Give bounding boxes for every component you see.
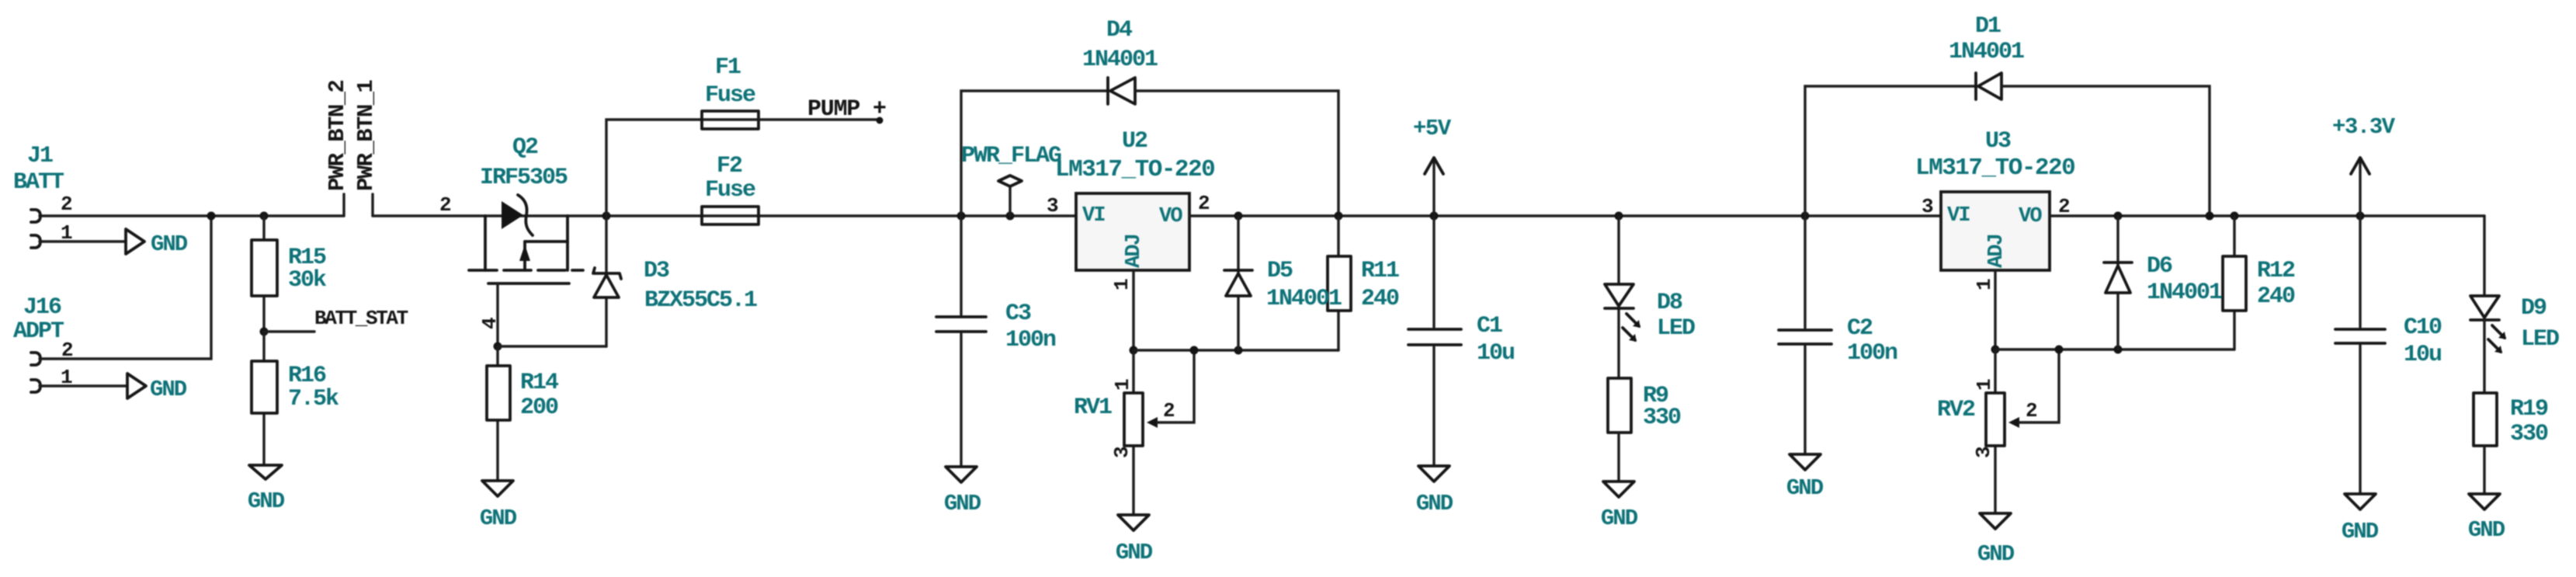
ground GND below RV2 bbox=[1977, 513, 2015, 567]
junction at C2/D1 riser bbox=[1801, 212, 1810, 221]
svg-text:Fuse: Fuse bbox=[705, 177, 755, 203]
svg-text:1N4001: 1N4001 bbox=[1082, 47, 1158, 73]
junction +3.3V / C10 bbox=[2356, 212, 2365, 221]
wire main bus left segment bbox=[40, 214, 344, 217]
op-amp U2 LM317_TO-220 bbox=[1047, 128, 1214, 290]
svg-text:J16: J16 bbox=[23, 294, 61, 321]
svg-text:D9: D9 bbox=[2521, 295, 2546, 322]
svg-text:D4: D4 bbox=[1106, 17, 1133, 43]
svg-text:7.5k: 7.5k bbox=[288, 386, 339, 412]
svg-text:GND: GND bbox=[944, 491, 981, 516]
power flag PWR_FLAG bbox=[961, 143, 1061, 221]
power +5V bbox=[1413, 116, 1452, 216]
junction at D3 top on main bus bbox=[602, 212, 611, 221]
junction at J16 riser bbox=[207, 212, 216, 221]
junction D5 top bbox=[1234, 212, 1243, 221]
svg-text:PWR_BTN_2: PWR_BTN_2 bbox=[325, 81, 350, 191]
svg-text:VI: VI bbox=[1082, 204, 1105, 228]
wire riser to D1 rail bbox=[1805, 86, 1976, 216]
svg-text:R12: R12 bbox=[2257, 258, 2295, 284]
power +3.3V bbox=[2332, 114, 2396, 216]
svg-text:J1: J1 bbox=[27, 143, 53, 169]
svg-text:LM317_TO-220: LM317_TO-220 bbox=[1915, 155, 2074, 182]
wire D1 rail to right riser bbox=[2001, 86, 2210, 216]
svg-text:F1: F1 bbox=[715, 54, 741, 81]
wire riser to D4 rail bbox=[961, 91, 1108, 216]
svg-text:GND: GND bbox=[2468, 517, 2505, 543]
svg-text:GND: GND bbox=[1116, 540, 1153, 565]
junction +5V / C1 bbox=[1430, 212, 1439, 221]
svg-text:D5: D5 bbox=[1267, 258, 1293, 284]
svg-text:BATT_STAT: BATT_STAT bbox=[314, 307, 408, 330]
svg-text:U2: U2 bbox=[1122, 128, 1147, 155]
svg-text:3: 3 bbox=[1110, 446, 1134, 458]
wire riser to F1 bbox=[606, 120, 702, 216]
wire ADJ line to R11 bbox=[1134, 349, 1338, 351]
op-amp U3 LM317_TO-220 bbox=[1915, 128, 2074, 290]
svg-text:2: 2 bbox=[2026, 399, 2038, 422]
svg-text:2: 2 bbox=[1163, 399, 1175, 422]
connector J1 labels bbox=[13, 143, 64, 196]
svg-text:10u: 10u bbox=[1477, 340, 1514, 367]
wire U3 VO to right bbox=[2050, 214, 2484, 217]
junction R12 top bbox=[2231, 212, 2239, 221]
svg-text:240: 240 bbox=[1361, 286, 1399, 312]
node PUMP + bbox=[807, 96, 886, 124]
svg-text:GND: GND bbox=[248, 488, 285, 514]
svg-text:RV1: RV1 bbox=[1074, 395, 1112, 421]
svg-text:LED: LED bbox=[2521, 326, 2559, 353]
svg-text:GND: GND bbox=[151, 231, 188, 257]
ground GND below C1 bbox=[1416, 466, 1453, 516]
node BATT_STAT bbox=[260, 307, 408, 336]
junction ADJ node bbox=[1130, 346, 1138, 355]
wire U2 ADJ pin bbox=[1132, 270, 1134, 350]
junction D6 top bbox=[2114, 212, 2123, 221]
diode D6 1N4001 bbox=[2104, 216, 2222, 349]
svg-text:GND: GND bbox=[480, 506, 517, 531]
svg-text:C10: C10 bbox=[2404, 315, 2442, 341]
svg-text:330: 330 bbox=[2510, 421, 2548, 447]
svg-text:F2: F2 bbox=[717, 153, 742, 179]
fuse F1 bbox=[702, 54, 759, 129]
junction at C3/D4 riser bbox=[957, 212, 966, 221]
svg-text:1: 1 bbox=[1973, 278, 1996, 290]
diode D5 1N4001 bbox=[1224, 216, 1342, 350]
diode D4 1N4001 bbox=[1082, 17, 1158, 104]
svg-text:R14: R14 bbox=[520, 370, 559, 396]
ground GND below R16 bbox=[248, 465, 285, 514]
svg-text:30k: 30k bbox=[288, 267, 327, 294]
svg-text:R19: R19 bbox=[2510, 396, 2548, 422]
net label PWR_BTN_2 bbox=[325, 81, 350, 191]
junction D6 bottom bbox=[2114, 346, 2123, 354]
fuse F2 bbox=[702, 153, 759, 224]
ground GND at J16 pin1 bbox=[127, 374, 187, 402]
svg-text:BZX55C5.1: BZX55C5.1 bbox=[644, 287, 757, 314]
connector J1 pin 1 bbox=[31, 221, 126, 248]
wire ADJ line to R12 bbox=[1995, 348, 2234, 350]
svg-text:ADJ: ADJ bbox=[1123, 235, 1146, 268]
ground GND below R14 bbox=[480, 481, 517, 531]
zener diode D3 BZX55C5.1 bbox=[593, 216, 757, 346]
svg-text:240: 240 bbox=[2257, 283, 2295, 310]
ground GND below R9 bbox=[1601, 481, 1638, 531]
LED D8 bbox=[1605, 216, 1695, 378]
svg-text:VO: VO bbox=[1159, 205, 1182, 228]
connector J16 labels bbox=[13, 294, 64, 345]
ground GND below C3 bbox=[944, 467, 981, 516]
svg-text:C3: C3 bbox=[1005, 301, 1031, 327]
svg-text:D8: D8 bbox=[1657, 290, 1682, 316]
svg-text:3: 3 bbox=[1922, 195, 1934, 218]
ground GND below R19 bbox=[2468, 494, 2505, 543]
svg-text:2: 2 bbox=[439, 193, 452, 217]
svg-text:C2: C2 bbox=[1847, 315, 1873, 342]
svg-text:GND: GND bbox=[1416, 491, 1453, 516]
svg-text:LM317_TO-220: LM317_TO-220 bbox=[1055, 156, 1214, 183]
svg-text:ADPT: ADPT bbox=[13, 318, 64, 345]
connector J1 pin 2 bbox=[31, 193, 73, 222]
svg-text:330: 330 bbox=[1643, 405, 1681, 431]
svg-text:IRF5305: IRF5305 bbox=[480, 165, 568, 191]
svg-text:C1: C1 bbox=[1477, 313, 1502, 339]
svg-text:VI: VI bbox=[1947, 204, 1970, 228]
svg-text:U3: U3 bbox=[1985, 128, 2011, 155]
ground GND below C2 bbox=[1786, 454, 1824, 501]
svg-text:D6: D6 bbox=[2147, 253, 2172, 280]
capacitor C3 bbox=[936, 216, 1056, 467]
svg-text:1: 1 bbox=[61, 221, 73, 245]
capacitor C1 bbox=[1408, 216, 1514, 466]
junction D8 branch bbox=[1615, 212, 1623, 221]
svg-text:PUMP +: PUMP + bbox=[807, 96, 886, 123]
svg-text:10u: 10u bbox=[2404, 342, 2441, 368]
resistor R11 bbox=[1328, 216, 1399, 350]
potentiometer RV1 bbox=[1074, 346, 1199, 516]
svg-text:+5V: +5V bbox=[1413, 116, 1452, 141]
svg-text:2: 2 bbox=[1198, 192, 1210, 215]
wire U2 VO to U3 bbox=[1189, 214, 1941, 217]
junction at gate/R14/D3 node bbox=[494, 342, 502, 351]
svg-text:RV2: RV2 bbox=[1937, 397, 1975, 423]
svg-text:R16: R16 bbox=[288, 363, 326, 389]
wire J16 pin2 to main bus bbox=[40, 216, 211, 359]
svg-text:GND: GND bbox=[150, 377, 187, 402]
wire U3 ADJ pin bbox=[1994, 270, 1996, 349]
svg-text:1: 1 bbox=[1111, 378, 1134, 391]
svg-text:1: 1 bbox=[61, 366, 73, 389]
wire D9 branch bbox=[2483, 216, 2485, 296]
svg-text:R11: R11 bbox=[1361, 258, 1399, 284]
svg-text:1: 1 bbox=[1973, 378, 1996, 391]
junction at R15 top bbox=[260, 212, 269, 221]
svg-text:PWR_FLAG: PWR_FLAG bbox=[961, 143, 1061, 169]
svg-text:LED: LED bbox=[1657, 315, 1695, 342]
capacitor C10 bbox=[2335, 216, 2442, 494]
potentiometer RV2 bbox=[1937, 346, 2064, 514]
LED D9 bbox=[2470, 295, 2559, 393]
ground GND below C10 bbox=[2342, 494, 2379, 544]
capacitor C2 bbox=[1779, 216, 1897, 454]
resistor R16 bbox=[252, 332, 339, 465]
svg-text:200: 200 bbox=[520, 395, 558, 421]
svg-text:1N4001: 1N4001 bbox=[2147, 280, 2222, 306]
svg-text:GND: GND bbox=[2342, 519, 2379, 544]
svg-text:1: 1 bbox=[1110, 278, 1134, 290]
ground GND below RV1 bbox=[1116, 515, 1153, 565]
svg-text:+3.3V: +3.3V bbox=[2332, 114, 2396, 140]
net label PWR_BTN_1 bbox=[353, 80, 379, 191]
svg-text:GND: GND bbox=[1601, 506, 1638, 531]
svg-text:2: 2 bbox=[61, 193, 73, 216]
resistor R19 bbox=[2474, 393, 2548, 494]
ground GND at J1 pin1 bbox=[126, 229, 188, 257]
svg-text:1N4001: 1N4001 bbox=[1266, 286, 1342, 312]
connector J16 pin 1 bbox=[31, 366, 127, 392]
svg-text:D1: D1 bbox=[1975, 13, 2001, 40]
resistor R15 bbox=[252, 216, 327, 332]
svg-text:3: 3 bbox=[1972, 446, 1995, 458]
wire PWR_BTN_2 stub bbox=[342, 194, 345, 216]
connector J16 pin 2 bbox=[31, 339, 74, 365]
svg-text:VO: VO bbox=[2019, 205, 2042, 228]
svg-text:100n: 100n bbox=[1847, 340, 1897, 367]
svg-text:3: 3 bbox=[1047, 194, 1059, 217]
svg-text:GND: GND bbox=[1977, 541, 2015, 567]
junction U3 ADJ node bbox=[1991, 346, 2000, 354]
wire PWR_BTN_1 stub bbox=[371, 194, 373, 216]
svg-text:PWR_BTN_1: PWR_BTN_1 bbox=[353, 80, 379, 191]
junction R11 top / rail riser bbox=[1335, 212, 1343, 221]
wire gate node to D3 anode bbox=[498, 345, 606, 347]
diode D1 1N4001 bbox=[1949, 13, 2024, 99]
wire Q2 gate to R14 bbox=[496, 283, 498, 346]
svg-text:100n: 100n bbox=[1005, 327, 1056, 353]
svg-text:BATT: BATT bbox=[13, 169, 64, 196]
resistor R14 bbox=[487, 346, 559, 481]
resistor R12 bbox=[2223, 216, 2295, 349]
junction D5 bottom bbox=[1234, 346, 1243, 355]
svg-text:Q2: Q2 bbox=[512, 134, 538, 161]
junction rail riser right bbox=[2206, 212, 2214, 221]
resistor R9 bbox=[1608, 378, 1681, 481]
svg-text:1N4001: 1N4001 bbox=[1949, 39, 2024, 65]
wire main bus to U2 bbox=[373, 214, 1076, 217]
transistor Q2 IRF5305 bbox=[439, 134, 583, 329]
wire F1 to PUMP bbox=[759, 118, 880, 120]
svg-text:D3: D3 bbox=[644, 258, 669, 284]
svg-text:ADJ: ADJ bbox=[1985, 235, 2008, 268]
svg-text:Fuse: Fuse bbox=[705, 82, 755, 109]
wire D4 rail to VO node bbox=[1135, 91, 1338, 216]
svg-text:GND: GND bbox=[1786, 475, 1824, 501]
